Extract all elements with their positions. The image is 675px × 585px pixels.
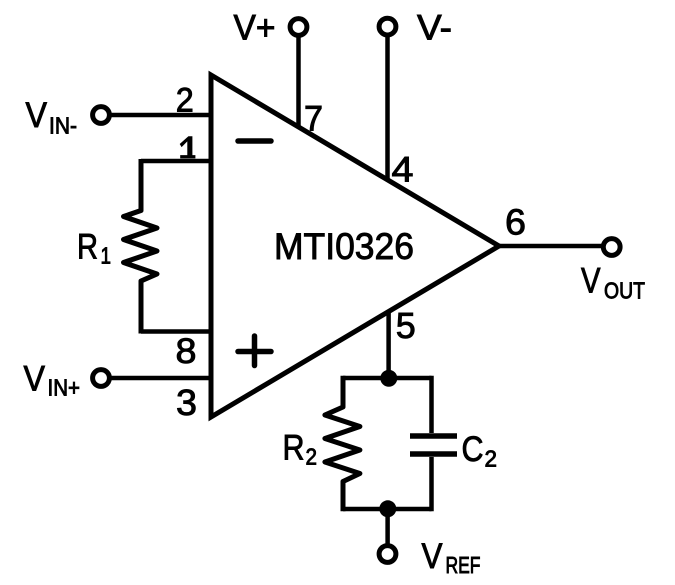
wire V- supply to pin 4 on top edge <box>385 36 390 180</box>
svg-text:V: V <box>581 262 601 301</box>
svg-text:V: V <box>26 96 48 135</box>
terminal VIN- open circle <box>93 107 110 124</box>
wire top rail of R2/C2 parallel network <box>343 376 432 381</box>
capacitor C2 lower lead <box>429 457 434 511</box>
svg-text:OUT: OUT <box>604 278 645 304</box>
wire pin 5 from lower edge down to RC junction <box>386 311 391 378</box>
wire pin 6 output from apex to VOUT terminal <box>499 244 602 249</box>
svg-text:MTI0326: MTI0326 <box>274 226 414 267</box>
non-inverting input plus sign <box>238 336 271 366</box>
terminal V- open circle <box>379 18 396 35</box>
wire pin 2 from VIN- terminal to op-amp <box>110 113 211 118</box>
svg-text:8: 8 <box>176 332 197 371</box>
svg-text:IN+: IN+ <box>48 375 81 401</box>
svg-text:5: 5 <box>396 305 416 346</box>
svg-text:V: V <box>422 537 444 576</box>
svg-text:V-: V- <box>417 8 452 47</box>
wire bottom rail of R2/C2 parallel network <box>343 507 432 512</box>
svg-text:R: R <box>77 228 98 267</box>
svg-text:R: R <box>283 428 305 467</box>
capacitor C2 upper lead (right branch) <box>429 376 434 433</box>
op-amp U1 MTI0326 triangle body <box>211 75 499 417</box>
capacitor C2 plates <box>410 436 457 454</box>
svg-text:1: 1 <box>101 243 112 269</box>
svg-text:7: 7 <box>304 100 323 139</box>
junction node dot at RC bottom / VREF <box>379 500 396 517</box>
terminal VOUT open circle <box>603 239 620 256</box>
svg-text:2: 2 <box>176 82 194 120</box>
wire from RC bottom junction to VREF terminal <box>385 509 390 545</box>
terminal V+ open circle <box>290 19 307 36</box>
svg-text:6: 6 <box>505 202 526 243</box>
svg-text:V: V <box>24 360 46 399</box>
svg-text:REF: REF <box>446 552 481 578</box>
wire pin 1 stub from op-amp to R1 top <box>141 159 211 164</box>
terminal VIN+ open circle <box>93 370 110 387</box>
wire V+ supply to pin 7 on top edge <box>296 36 301 127</box>
wire pin 8 stub from op-amp to R1 bottom <box>141 329 211 334</box>
terminal VREF open circle <box>379 546 396 563</box>
resistor R1 (feedback between pin 1 and pin 8) <box>124 159 158 334</box>
svg-text:2: 2 <box>306 444 318 470</box>
junction node dot at pin 5 / RC top <box>380 370 397 387</box>
wire pin 3 from VIN+ terminal to op-amp <box>110 376 211 381</box>
svg-text:IN-: IN- <box>49 113 77 139</box>
svg-text:V+: V+ <box>234 8 276 47</box>
svg-text:3: 3 <box>176 382 197 423</box>
svg-text:2: 2 <box>485 446 498 472</box>
svg-text:4: 4 <box>392 150 414 190</box>
svg-text:C: C <box>462 430 484 469</box>
pin number 1 <box>180 136 196 158</box>
resistor R2 (left branch) <box>325 376 360 512</box>
inverting input minus sign <box>238 138 271 144</box>
